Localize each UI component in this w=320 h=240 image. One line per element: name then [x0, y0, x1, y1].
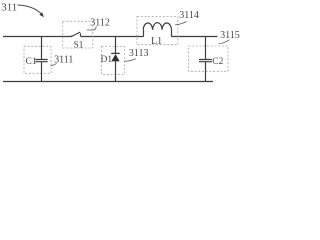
top rail left segment — [3, 36, 71, 38]
diode D1 cathode bar — [111, 52, 120, 54]
svg-text:C1: C1 — [26, 57, 37, 67]
diode D1 top lead wire — [115, 37, 117, 54]
inductor L1 dashed box 3114 — [137, 16, 178, 44]
svg-text:S1: S1 — [74, 40, 84, 50]
top rail right segment — [172, 36, 218, 38]
inductor L1 right leg — [171, 30, 173, 37]
switch S1 left contact — [70, 36, 72, 38]
leader hook for 3115 — [218, 40, 229, 44]
svg-text:3114: 3114 — [179, 10, 199, 21]
capacitor C2 bottom lead wire — [205, 62, 207, 82]
leader hook for 3112 — [87, 26, 97, 30]
switch S1 dashed box 3112 — [63, 21, 93, 48]
svg-text:C2: C2 — [212, 57, 223, 67]
svg-text:L1: L1 — [151, 36, 162, 47]
svg-text:3113: 3113 — [129, 48, 149, 59]
bottom rail — [3, 81, 213, 83]
diode D1 triangle (anode, pointing up) — [111, 54, 119, 61]
switch S1 right contact tick — [80, 33, 82, 36]
leader arrow from 311 — [18, 5, 42, 14]
svg-text:311: 311 — [1, 2, 17, 14]
capacitor C2 dashed box 3115 — [189, 46, 229, 71]
svg-text:3111: 3111 — [54, 55, 73, 66]
inductor L1 left leg — [143, 30, 145, 37]
leader hook for 3114 — [175, 21, 187, 25]
inductor L1 coil humps — [143, 23, 171, 30]
capacitor C2 top lead wire — [205, 37, 207, 60]
top rail middle segment — [81, 36, 144, 38]
diode D1 dashed box 3113 — [102, 46, 125, 74]
svg-text:D1: D1 — [101, 55, 113, 65]
svg-text:3115: 3115 — [220, 30, 240, 41]
capacitor C1 plates — [35, 60, 47, 62]
capacitor C2 plates — [199, 60, 212, 62]
svg-text:3112: 3112 — [90, 18, 110, 29]
capacitor C1 top lead wire — [41, 37, 43, 60]
switch S1 blade — [71, 32, 80, 36]
diode D1 bottom lead wire — [115, 61, 117, 81]
capacitor C1 dashed box 3111 — [24, 46, 51, 73]
capacitor C1 bottom lead wire — [41, 62, 43, 82]
leader hook for 3113 — [124, 59, 136, 62]
leader hook for 3111 — [51, 63, 57, 65]
